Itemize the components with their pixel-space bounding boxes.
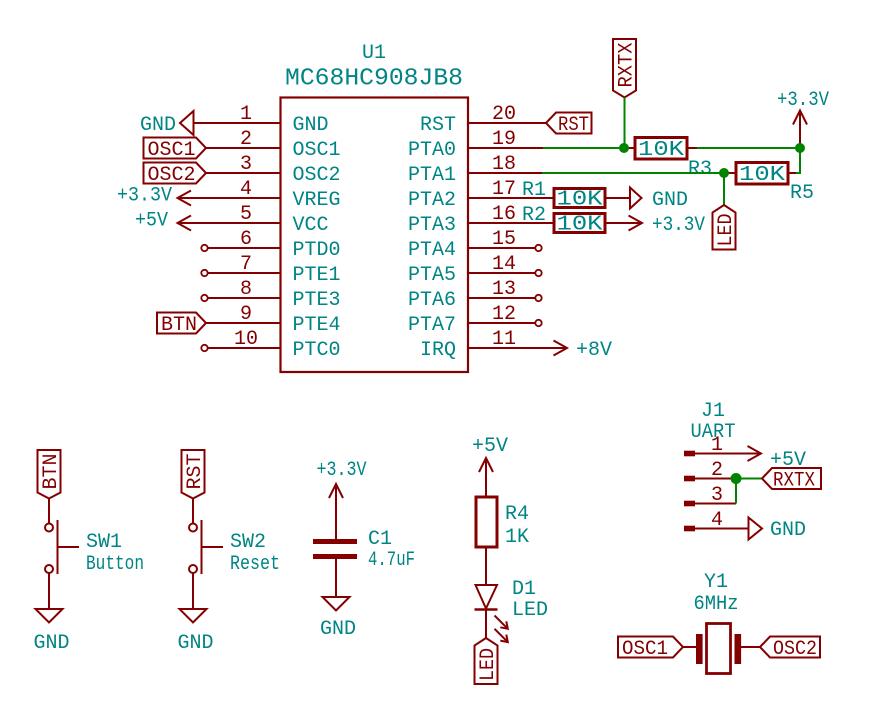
svg-text:+3.3V: +3.3V (117, 185, 172, 208)
svg-text:10K: 10K (557, 214, 603, 237)
svg-text:R4: R4 (505, 503, 529, 526)
svg-text:BTN: BTN (161, 314, 197, 337)
svg-text:GND: GND (652, 189, 688, 212)
svg-text:D1: D1 (512, 578, 536, 601)
svg-text:+5V: +5V (135, 210, 168, 233)
svg-text:+8V: +8V (576, 339, 612, 362)
svg-text:4.7uF: 4.7uF (368, 549, 415, 572)
svg-text:PTA5: PTA5 (408, 264, 456, 287)
svg-text:GND: GND (177, 632, 213, 655)
svg-text:Reset: Reset (230, 553, 280, 576)
svg-text:SW1: SW1 (86, 531, 122, 554)
svg-text:PTA7: PTA7 (408, 314, 456, 337)
svg-text:10K: 10K (638, 139, 684, 162)
svg-text:PTA3: PTA3 (408, 214, 456, 237)
svg-text:+3.3V: +3.3V (317, 459, 367, 482)
svg-text:R5: R5 (790, 182, 814, 205)
svg-text:R3: R3 (688, 158, 712, 181)
svg-text:10K: 10K (739, 164, 785, 187)
svg-text:Y1: Y1 (704, 571, 728, 594)
svg-text:PTE3: PTE3 (293, 289, 341, 312)
svg-text:PTE1: PTE1 (293, 264, 341, 287)
svg-text:1K: 1K (505, 526, 529, 549)
svg-text:RXTX: RXTX (616, 43, 639, 88)
svg-text:RST: RST (420, 114, 456, 137)
svg-text:IRQ: IRQ (420, 339, 456, 362)
svg-text:OSC2: OSC2 (293, 164, 341, 187)
svg-text:SW2: SW2 (230, 531, 266, 554)
svg-text:OSC1: OSC1 (293, 139, 341, 162)
svg-text:PTC0: PTC0 (293, 339, 341, 362)
svg-text:GND: GND (33, 632, 69, 655)
svg-text:LED: LED (477, 648, 500, 681)
svg-text:PTA2: PTA2 (408, 189, 456, 212)
svg-text:C1: C1 (368, 528, 392, 551)
svg-text:OSC1: OSC1 (148, 139, 196, 162)
svg-text:RST: RST (558, 114, 589, 137)
svg-text:GND: GND (140, 114, 176, 137)
svg-text:+3.3V: +3.3V (777, 89, 829, 112)
svg-text:PTA1: PTA1 (408, 164, 456, 187)
svg-text:OSC1: OSC1 (622, 638, 668, 661)
svg-text:6MHz: 6MHz (694, 593, 739, 616)
svg-text:BTN: BTN (40, 453, 63, 489)
svg-text:PTA6: PTA6 (408, 289, 456, 312)
svg-text:PTD0: PTD0 (293, 239, 341, 262)
svg-text:GND: GND (770, 519, 806, 542)
svg-text:GND: GND (320, 618, 356, 641)
svg-text:VREG: VREG (293, 189, 341, 212)
svg-text:U1: U1 (362, 42, 386, 65)
svg-text:OSC2: OSC2 (773, 638, 817, 661)
svg-text:+5V: +5V (472, 435, 508, 458)
svg-text:VCC: VCC (293, 214, 329, 237)
svg-text:LED: LED (715, 214, 738, 247)
svg-text:10K: 10K (557, 189, 603, 212)
svg-text:PTA0: PTA0 (408, 139, 456, 162)
svg-text:PTA4: PTA4 (408, 239, 456, 262)
svg-text:Button: Button (86, 553, 144, 576)
svg-text:J1: J1 (701, 400, 725, 423)
svg-text:GND: GND (293, 114, 329, 137)
svg-text:R1: R1 (522, 179, 546, 202)
svg-text:RST: RST (184, 453, 207, 489)
svg-text:MC68HC908JB8: MC68HC908JB8 (285, 66, 463, 93)
svg-text:PTE4: PTE4 (293, 314, 341, 337)
svg-text:LED: LED (512, 599, 548, 622)
svg-text:+3.3V: +3.3V (652, 214, 705, 237)
svg-text:R2: R2 (522, 204, 546, 227)
svg-text:RXTX: RXTX (773, 470, 815, 493)
